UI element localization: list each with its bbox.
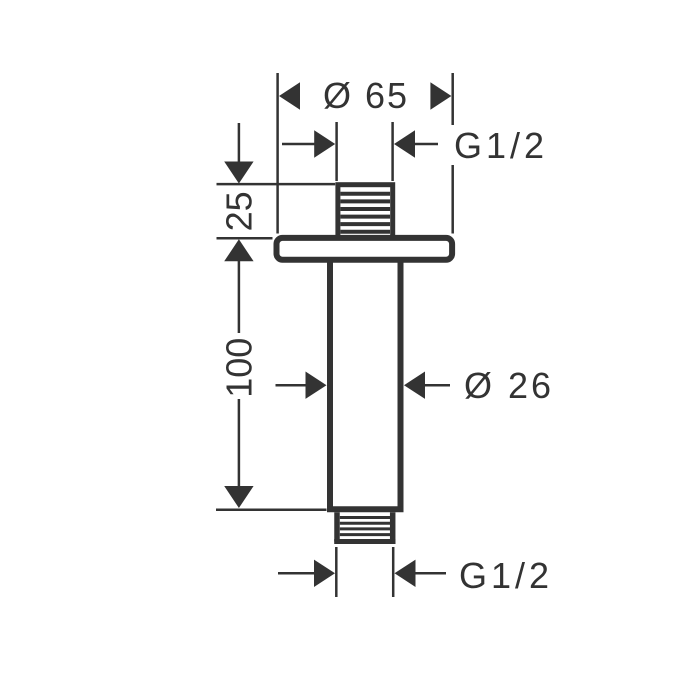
- pipe bottom cap: [327, 506, 404, 512]
- bottom thread end line: [334, 539, 395, 544]
- svg-text:G1/2: G1/2: [459, 555, 553, 596]
- dimension line Ø26 left: [276, 384, 311, 387]
- arrowhead G1/2 top-left: [314, 130, 335, 157]
- svg-text:Ø 65: Ø 65: [323, 75, 409, 116]
- bottom thread left wall: [334, 512, 340, 541]
- extension line Ø65 left: [276, 73, 279, 234]
- arrowhead Ø65 left: [279, 82, 300, 109]
- extension line G1/2 bottom-left: [335, 547, 338, 597]
- extension line 100 bottom (pipe end level): [216, 509, 327, 512]
- arrowhead Ø26 left: [306, 372, 327, 399]
- pipe right wall: [398, 259, 404, 510]
- label G1/2 top white backing: [447, 125, 553, 165]
- arrowhead 25 down: [224, 162, 253, 184]
- arrowhead G1/2 bottom-left: [314, 560, 335, 587]
- arrowhead Ø26 right: [404, 372, 425, 399]
- svg-text:G1/2: G1/2: [454, 125, 548, 166]
- dimension line G1/2 top-left: [282, 143, 318, 146]
- extension line 25 bottom (flange top level): [217, 237, 273, 240]
- arrowhead G1/2 top-right: [394, 130, 415, 157]
- extension line G1/2 bottom-right: [392, 547, 395, 597]
- top thread body: [338, 185, 393, 238]
- arrowhead 100 up (shared with 25): [224, 239, 253, 261]
- flange plate: [277, 238, 453, 260]
- dimension line G1/2 bottom-left: [278, 572, 318, 575]
- svg-text:100: 100: [219, 338, 260, 398]
- dimension line G1/2 top-right: [415, 143, 438, 146]
- dimension line Ø26 right: [425, 384, 450, 387]
- pipe left wall: [327, 259, 333, 510]
- arrowhead 100 down: [224, 486, 253, 508]
- arrowhead G1/2 bottom-right: [395, 560, 416, 587]
- arrowhead Ø65 right: [430, 82, 451, 109]
- extension line Ø65 right: [451, 73, 454, 234]
- extension line G1/2 top-left: [335, 122, 338, 181]
- dimension line G1/2 bottom-right: [416, 572, 447, 575]
- top thread hatch lines: [341, 194, 391, 232]
- extension line G1/2 top-right: [391, 122, 394, 181]
- dimension line 100 upper: [238, 260, 241, 333]
- extension line 25 top (thread top level): [217, 183, 336, 186]
- svg-text:25: 25: [219, 191, 260, 231]
- dimension tail above 25: [238, 123, 241, 164]
- dimension line 100 lower: [238, 399, 241, 488]
- bottom thread hatch lines: [340, 518, 390, 535]
- bottom thread right wall: [390, 512, 396, 541]
- svg-text:Ø 26: Ø 26: [464, 365, 554, 406]
